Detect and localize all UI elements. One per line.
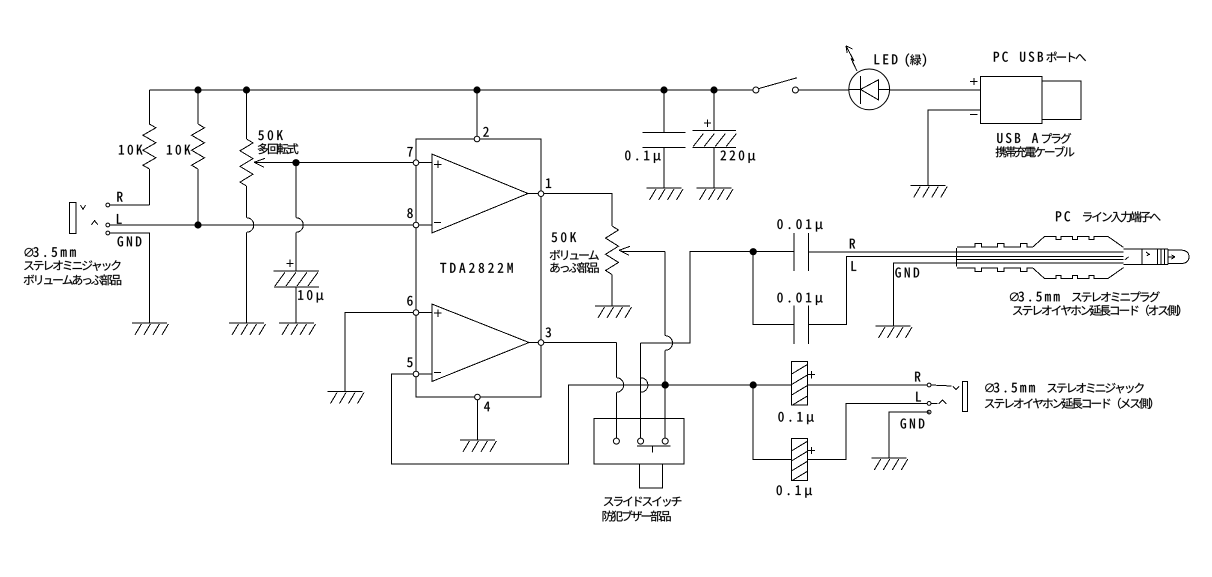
- connector USB A plug shell: [1042, 81, 1081, 120]
- capacitor C4 0.1u plates: [642, 132, 685, 147]
- label P1 line 1: [1010, 291, 1160, 302]
- capacitor C7 0.1u body: [792, 438, 808, 480]
- wire: pin 6 to ground: [345, 313, 413, 392]
- wire: VR1 wiper to pin 7: [257, 162, 413, 164]
- wire: rail to VR1: [246, 90, 248, 139]
- P1 shaft: [1124, 249, 1168, 264]
- op-amp U1 TDA2822M package outline: [416, 139, 541, 397]
- USB + mark: [970, 78, 977, 85]
- label SW2 buzzer part: [603, 510, 671, 521]
- wire: pin 3 down with hop over output wire: [616, 343, 623, 439]
- U1B - input mark: [434, 371, 441, 373]
- label D1 LED (green): [875, 53, 926, 66]
- SW2 common bar: [637, 446, 671, 453]
- connector J1: 3.5mm stereo mini jack body: [69, 203, 75, 234]
- potentiometer VR1 50K: [240, 139, 253, 186]
- label J1 L: [117, 214, 122, 224]
- J1 terminal R: [106, 203, 110, 207]
- ground: C1: [279, 323, 316, 335]
- wire: rail to C4: [663, 90, 665, 132]
- wire: C2 to plug R: [809, 251, 1124, 253]
- junction: contact2 net split R/L: [750, 248, 757, 255]
- label P1 line 2: [1013, 305, 1180, 316]
- pin 2 (V+): [474, 136, 480, 142]
- wire: C5 to ground: [713, 147, 715, 188]
- junction: rail / R2: [194, 86, 201, 93]
- resistor R2 10K: [192, 124, 205, 169]
- SW2 actuator tab: [640, 464, 663, 488]
- wire: +V power rail: [149, 89, 753, 91]
- ground: J2: [871, 458, 908, 470]
- wire: wiper down with hop over contact2 net: [665, 252, 672, 385]
- label J1 line 2: [24, 260, 120, 271]
- wire: LED to USB +: [890, 89, 981, 91]
- P1 tip: [1168, 250, 1189, 264]
- pin number 3: [546, 327, 551, 337]
- wire: rail to R1: [148, 90, 150, 124]
- label VR2 value 50K: [552, 232, 577, 242]
- op-amp U1B triangle: [432, 304, 529, 382]
- pin 6 (U1B +in): [413, 310, 419, 316]
- wire: rail to pin 2: [476, 90, 478, 136]
- label plug L: [852, 261, 857, 271]
- label mobile charge cable: [996, 146, 1075, 157]
- wire: plug GND: [894, 263, 1124, 326]
- ground: USB -: [911, 186, 948, 198]
- label J2 L: [916, 392, 921, 402]
- wire: pin 5 output loop: [392, 374, 792, 464]
- P1 moulded body top profile: [957, 237, 1124, 248]
- junction: output / wiper net: [662, 381, 669, 388]
- polarity + of C6: [808, 371, 815, 378]
- junction: wiper / C-10u: [292, 159, 299, 166]
- wire: U1A out to pin 1: [528, 193, 538, 195]
- ground: C5: [697, 188, 734, 200]
- label C3 value 0.01u: [777, 293, 822, 305]
- wire: rail to C5: [713, 90, 715, 131]
- junction: rail / VR1: [243, 86, 250, 93]
- wire: pin 4 to ground: [476, 400, 478, 440]
- label USB A plug: [997, 133, 1071, 144]
- junction: wiper net / output wire: [662, 381, 669, 388]
- wire: pin 1 to VR2: [544, 194, 612, 226]
- pin number 5: [407, 358, 412, 368]
- polarity + of C7: [808, 447, 815, 454]
- SW2 contact 1: [613, 438, 619, 444]
- pin 7 (U1A +in): [413, 160, 419, 166]
- label VR1 multi-turn: [258, 143, 299, 154]
- wire: C3 to plug L: [809, 257, 1124, 325]
- ground: VR2: [595, 306, 632, 318]
- label VR2 volume-up part 2: [550, 262, 598, 273]
- connector USB A plug body: [981, 77, 1042, 124]
- wire: plug cable 4th strand: [956, 259, 1123, 261]
- D1 anode stub: [849, 88, 890, 90]
- wire: pin 5 stub: [419, 373, 432, 375]
- label C2 value 0.01u: [777, 219, 822, 231]
- wiper arrow VR1: [254, 158, 265, 167]
- pin 4 (GND): [475, 394, 481, 400]
- wiper arrow VR2: [619, 246, 630, 255]
- J1 ring contact hook (L): [92, 221, 98, 225]
- wire: contact 2 net across: [641, 252, 794, 343]
- capacitor C6 0.1u body: [792, 362, 808, 406]
- junction: rail / pin2: [473, 86, 480, 93]
- capacitor C1 10u hatched plate: [274, 272, 319, 287]
- pin 1 (U1A out): [538, 191, 544, 197]
- junction: L wire / R2: [194, 221, 201, 228]
- ground: J1: [132, 323, 169, 335]
- wire: contact 2 up with hop over output wire: [641, 343, 648, 438]
- resistor R1 10K: [143, 124, 156, 169]
- wire: VR1 bottom lead with hop over L wire: [247, 186, 254, 323]
- wire: J2 GND to ground: [889, 412, 929, 458]
- wire: output junction down to C7: [753, 385, 792, 459]
- pin number 1: [546, 179, 551, 188]
- J2 terminal GND: [927, 410, 931, 414]
- label J2 line 2: [985, 398, 1152, 409]
- wire: C4 to ground: [663, 147, 665, 188]
- label J1 R: [117, 192, 122, 202]
- wire: VR2 to ground: [611, 275, 613, 307]
- junction: rail / C-220u: [710, 86, 717, 93]
- P1 moulded body bottom profile: [957, 268, 1124, 279]
- pin number 2: [483, 127, 488, 137]
- wire: U1B out to pin 3: [529, 342, 538, 344]
- wire: J2 L stub: [931, 402, 938, 404]
- wire: R signal jack to R1: [110, 204, 150, 206]
- label SW2 slide switch: [604, 496, 681, 506]
- label: to PC line input: [1056, 211, 1161, 222]
- label U1 TDA2822M: [440, 263, 512, 273]
- J1 tip contact hook (R): [81, 205, 86, 209]
- SW2 contact 2: [638, 438, 644, 444]
- pin number 8: [407, 208, 412, 218]
- label J1 line 1: [25, 247, 76, 257]
- LED D1 (green): [849, 69, 890, 110]
- polarity + of C1: [286, 260, 293, 267]
- switch SW1 contact A: [753, 87, 759, 93]
- wire: C6 to J2 R: [807, 384, 927, 386]
- pin number 7: [407, 147, 412, 156]
- pin number 4: [484, 402, 490, 411]
- label C1 value 10u: [298, 290, 323, 302]
- wire: pin 7 stub: [419, 162, 432, 164]
- SW2 contact 3: [662, 438, 668, 444]
- capacitor C3 0.01u plates: [794, 306, 809, 344]
- wire: VR2 wiper horizontal: [623, 251, 665, 253]
- J1 terminal GND: [106, 231, 110, 235]
- op-amp U1A triangle: [432, 154, 528, 233]
- pin 8 (U1A -in): [413, 222, 419, 228]
- wire: rail to R2: [197, 90, 199, 124]
- wire: pin 3 to corner: [544, 342, 617, 344]
- label C5 value 220u: [721, 151, 756, 163]
- wire: pin 8 stub: [419, 224, 432, 226]
- label VR1 value 50K: [258, 130, 283, 140]
- wire: J1 GND to ground: [110, 233, 150, 323]
- label J1 line 3: [24, 274, 121, 285]
- potentiometer VR2 50K: [606, 226, 619, 275]
- switch SW1 arm: [759, 78, 797, 89]
- wire: junction down to C-10u with hop over L wire: [296, 163, 303, 272]
- wire: junction down to C3: [753, 252, 794, 325]
- wire: R1 to R jack wire: [148, 169, 150, 205]
- switch SW1 contact B: [792, 87, 798, 93]
- J2 terminal L: [927, 402, 931, 406]
- label plug R: [850, 239, 855, 249]
- label C4 value 0.1u: [625, 151, 660, 163]
- pin 3 (U1B out): [538, 340, 544, 346]
- switch SW2: slide switch body: [594, 419, 684, 465]
- wire: SW1 to LED: [798, 89, 848, 91]
- pin 5 (U1B -in): [413, 371, 419, 377]
- junction: output split R/L: [750, 381, 757, 388]
- wire: J2 R to hook: [931, 385, 952, 386]
- connector J2: 3.5mm stereo mini jack body: [963, 382, 968, 412]
- J2 ring contact hook (L): [939, 400, 947, 404]
- label J2 GND: [901, 418, 925, 428]
- pin number 6: [407, 296, 412, 306]
- D1 triangle: [861, 80, 879, 100]
- junction: rail / C-0.1u: [660, 86, 667, 93]
- wire: L signal jack to pin 8: [110, 224, 413, 226]
- wire: USB - to ground: [928, 110, 980, 186]
- polarity + of C5: [704, 120, 711, 127]
- P1 ring contact tick 2: [1125, 257, 1129, 260]
- label C7 value 0.1u: [777, 485, 812, 497]
- ground: C4: [647, 188, 684, 200]
- U1B + input mark: [434, 310, 441, 317]
- label R1 value 10K: [119, 145, 143, 155]
- label J1 GND: [118, 236, 142, 246]
- D1 light arrow: [846, 46, 857, 71]
- label C6 value 0.1u: [778, 412, 813, 424]
- J1 terminal L: [106, 223, 110, 227]
- P1 ring contact tick 1: [1146, 252, 1150, 256]
- ground: pin 6: [328, 392, 365, 404]
- capacitor C5 220u top plate: [692, 130, 736, 132]
- J2 tip contact hook (R): [953, 386, 959, 390]
- ground: plug GND: [876, 326, 913, 338]
- C6 hatch: [792, 365, 808, 406]
- ground: VR1: [229, 323, 266, 335]
- U1A - input mark: [434, 221, 441, 223]
- wire: R2 to L wire: [197, 169, 199, 225]
- capacitor C2 0.01u plates: [794, 233, 809, 271]
- label plug GND: [895, 267, 919, 277]
- label: to PC USB port: [994, 52, 1086, 63]
- wire: pin 6 stub: [419, 312, 432, 314]
- wire: junction to switch contact 3: [664, 385, 666, 438]
- label J2 R: [915, 372, 920, 382]
- capacitor C5 220u hatched plate: [692, 134, 736, 148]
- U1A + input mark: [434, 161, 441, 168]
- wire: C1 to ground: [295, 287, 297, 323]
- label R2 value 10K: [167, 145, 191, 155]
- D1 cathode bar: [860, 76, 862, 104]
- USB - mark: [970, 114, 977, 116]
- capacitor C1 10u top plate: [273, 270, 319, 272]
- wire: C7 to J2 L: [807, 403, 927, 459]
- J2 terminal R: [927, 383, 931, 387]
- connector P1: 3.5mm stereo mini plug body: [955, 248, 957, 267]
- ground: pin 4: [460, 440, 497, 452]
- C7 hatch: [792, 441, 808, 481]
- label J2 line 1: [985, 383, 1144, 394]
- label VR2 volume-up part: [550, 250, 599, 260]
